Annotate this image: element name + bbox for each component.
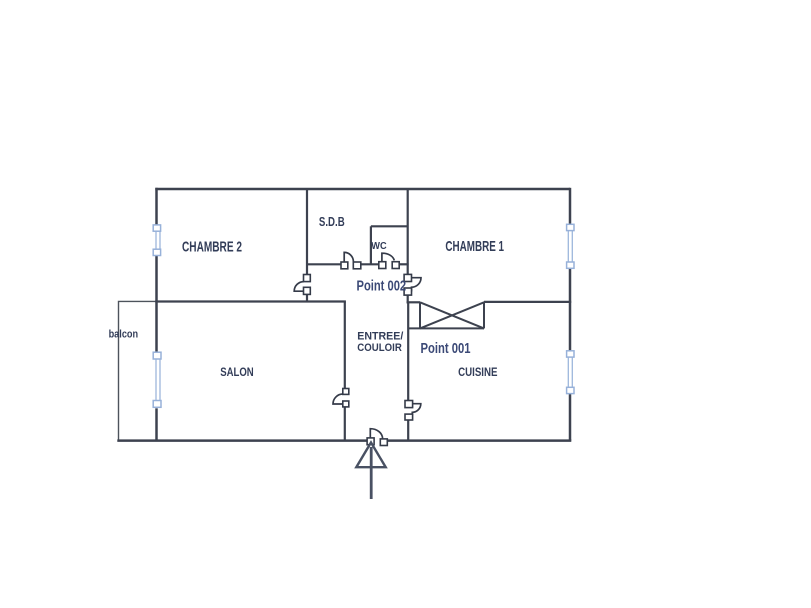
wall couloir/cuisine vertical — [407, 302, 409, 400]
door sdb (arc + jambs) — [341, 252, 361, 268]
wall sdb bottom horizontal — [306, 263, 341, 265]
door chambre 2 (arc + jambs) — [294, 275, 310, 295]
door entree (arc + jambs) — [367, 429, 387, 446]
entrance arrow — [356, 443, 385, 500]
svg-text:S.D.B: S.D.B — [319, 214, 345, 229]
svg-text:balcon: balcon — [109, 329, 139, 341]
svg-text:CHAMBRE 2: CHAMBRE 2 — [182, 238, 242, 255]
svg-text:Point 002: Point 002 — [357, 279, 407, 295]
wall bottom exterior — [117, 439, 367, 442]
wall sdb/chambre1 vertical — [407, 189, 409, 275]
door point 002 (arc + jambs) — [404, 274, 421, 295]
svg-text:CUISINE: CUISINE — [458, 365, 497, 379]
interior walls — [155, 189, 571, 441]
wall top exterior — [155, 188, 570, 191]
wall top cuisine right of hatch — [484, 301, 571, 303]
wall chambre2/sdb vertical — [306, 189, 308, 275]
svg-text:CHAMBRE 1: CHAMBRE 1 — [445, 238, 504, 255]
door cuisine (arc + jambs) — [405, 401, 421, 421]
wall wc top — [371, 225, 408, 227]
wall left exterior — [155, 188, 158, 226]
svg-text:SALON: SALON — [220, 367, 254, 379]
svg-text:ENTREE/: ENTREE/ — [357, 330, 404, 342]
window chambre 1 — [567, 224, 574, 268]
wall wc left — [370, 226, 372, 264]
wall right exterior — [569, 188, 572, 225]
svg-text:Point 001: Point 001 — [421, 341, 471, 357]
door wc (arc + jambs) — [379, 253, 399, 268]
svg-text:WC: WC — [371, 240, 387, 252]
exterior walls — [117, 188, 571, 441]
window salon — [153, 352, 161, 407]
door salon (arc + jambs) — [333, 389, 349, 407]
hatch box (placard) with X — [408, 302, 484, 329]
wall salon top horizontal — [155, 300, 346, 302]
window cuisine — [567, 351, 574, 394]
svg-text:COULOIR: COULOIR — [357, 342, 402, 354]
balcon outline — [119, 301, 157, 440]
wall salon/couloir vertical — [344, 302, 346, 389]
wall couloir/cuisine corner stub — [407, 301, 420, 303]
window chambre 2 — [153, 225, 160, 256]
